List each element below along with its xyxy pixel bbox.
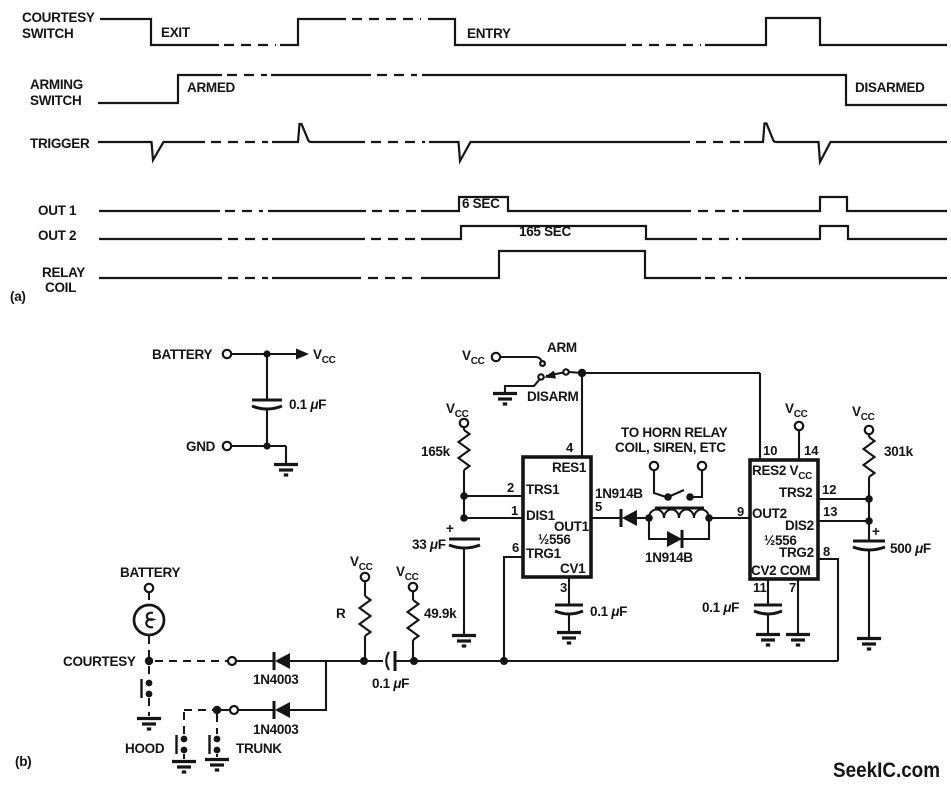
svg-text:9: 9 bbox=[737, 504, 744, 519]
svg-text:R: R bbox=[336, 606, 346, 621]
svg-text:COURTESY: COURTESY bbox=[63, 654, 136, 669]
svg-text:165 SEC: 165 SEC bbox=[519, 224, 571, 239]
svg-text:8: 8 bbox=[823, 544, 830, 559]
svg-text:4: 4 bbox=[566, 440, 574, 455]
svg-text:SWITCH: SWITCH bbox=[22, 26, 73, 41]
svg-text:GND: GND bbox=[186, 439, 216, 454]
svg-text:13: 13 bbox=[823, 504, 837, 519]
svg-text:6 SEC: 6 SEC bbox=[462, 196, 500, 211]
svg-text:1N4003: 1N4003 bbox=[253, 672, 299, 687]
svg-text:14: 14 bbox=[804, 443, 819, 458]
svg-text:VCC: VCC bbox=[350, 554, 373, 573]
svg-text:33 μF: 33 μF bbox=[412, 537, 446, 552]
svg-text:VCC: VCC bbox=[313, 347, 336, 366]
svg-text:165k: 165k bbox=[421, 444, 451, 459]
svg-text:TRG1: TRG1 bbox=[526, 546, 562, 561]
svg-text:49.9k: 49.9k bbox=[424, 606, 457, 621]
svg-text:COURTESY: COURTESY bbox=[22, 10, 95, 25]
svg-text:ARMING: ARMING bbox=[30, 77, 83, 92]
svg-text:1N914B: 1N914B bbox=[645, 550, 693, 565]
svg-text:VCC: VCC bbox=[462, 348, 485, 367]
svg-text:TRG2: TRG2 bbox=[779, 545, 814, 560]
svg-text:6: 6 bbox=[512, 540, 519, 555]
svg-text:ARMED: ARMED bbox=[187, 80, 236, 95]
svg-text:CV1: CV1 bbox=[560, 561, 586, 576]
svg-text:BATTERY: BATTERY bbox=[152, 347, 212, 362]
svg-text:0.1 μF: 0.1 μF bbox=[372, 676, 409, 691]
svg-text:DIS2: DIS2 bbox=[785, 518, 814, 533]
svg-text:2: 2 bbox=[507, 480, 514, 495]
svg-text:RES1: RES1 bbox=[552, 460, 587, 475]
svg-text:½556: ½556 bbox=[538, 532, 571, 547]
svg-text:VCC: VCC bbox=[852, 404, 875, 423]
svg-text:0.1 μF: 0.1 μF bbox=[702, 600, 739, 615]
svg-text:OUT2: OUT2 bbox=[752, 506, 787, 521]
svg-text:TRIGGER: TRIGGER bbox=[30, 136, 90, 151]
svg-text:SWITCH: SWITCH bbox=[30, 93, 81, 108]
svg-text:TO HORN RELAY: TO HORN RELAY bbox=[621, 425, 728, 440]
svg-text:CV2 COM: CV2 COM bbox=[751, 563, 810, 578]
svg-text:TRUNK: TRUNK bbox=[236, 741, 282, 756]
svg-text:12: 12 bbox=[822, 482, 836, 497]
svg-text:EXIT: EXIT bbox=[161, 25, 191, 40]
svg-text:BATTERY: BATTERY bbox=[120, 565, 180, 580]
svg-text:OUT 2: OUT 2 bbox=[38, 228, 76, 243]
svg-text:+: + bbox=[446, 521, 454, 536]
svg-text:COIL, SIREN, ETC: COIL, SIREN, ETC bbox=[615, 440, 726, 455]
svg-text:1N914B: 1N914B bbox=[595, 486, 643, 501]
svg-text:VCC: VCC bbox=[446, 401, 469, 420]
svg-text:0.1 μF: 0.1 μF bbox=[289, 397, 326, 412]
svg-text:(a): (a) bbox=[10, 289, 26, 304]
svg-text:ENTRY: ENTRY bbox=[467, 26, 511, 41]
svg-text:VCC: VCC bbox=[785, 401, 808, 420]
svg-text:(b): (b) bbox=[15, 754, 31, 769]
svg-text:301k: 301k bbox=[884, 444, 914, 459]
svg-text:TRS2: TRS2 bbox=[779, 485, 812, 500]
svg-text:TRS1: TRS1 bbox=[526, 482, 560, 497]
svg-text:DISARMED: DISARMED bbox=[855, 80, 925, 95]
svg-text:5: 5 bbox=[595, 499, 602, 514]
svg-text:11: 11 bbox=[753, 580, 767, 595]
svg-text:3: 3 bbox=[560, 580, 567, 595]
svg-text:1N4003: 1N4003 bbox=[253, 722, 299, 737]
svg-text:RES2 VCC: RES2 VCC bbox=[752, 463, 812, 482]
svg-text:0.1 μF: 0.1 μF bbox=[590, 604, 627, 619]
svg-text:RELAY: RELAY bbox=[42, 265, 85, 280]
svg-text:SeekIC.com: SeekIC.com bbox=[833, 759, 940, 782]
svg-text:COIL: COIL bbox=[45, 280, 76, 295]
svg-text:DISARM: DISARM bbox=[527, 389, 579, 404]
svg-text:500 μF: 500 μF bbox=[890, 541, 931, 556]
svg-text:DIS1: DIS1 bbox=[526, 508, 556, 523]
svg-text:VCC: VCC bbox=[396, 564, 419, 583]
svg-text:+: + bbox=[872, 524, 880, 539]
svg-text:HOOD: HOOD bbox=[125, 741, 165, 756]
svg-text:7: 7 bbox=[789, 580, 796, 595]
svg-text:10: 10 bbox=[763, 443, 777, 458]
svg-text:1: 1 bbox=[511, 503, 518, 518]
svg-text:ARM: ARM bbox=[547, 340, 577, 355]
svg-text:OUT 1: OUT 1 bbox=[38, 203, 77, 218]
